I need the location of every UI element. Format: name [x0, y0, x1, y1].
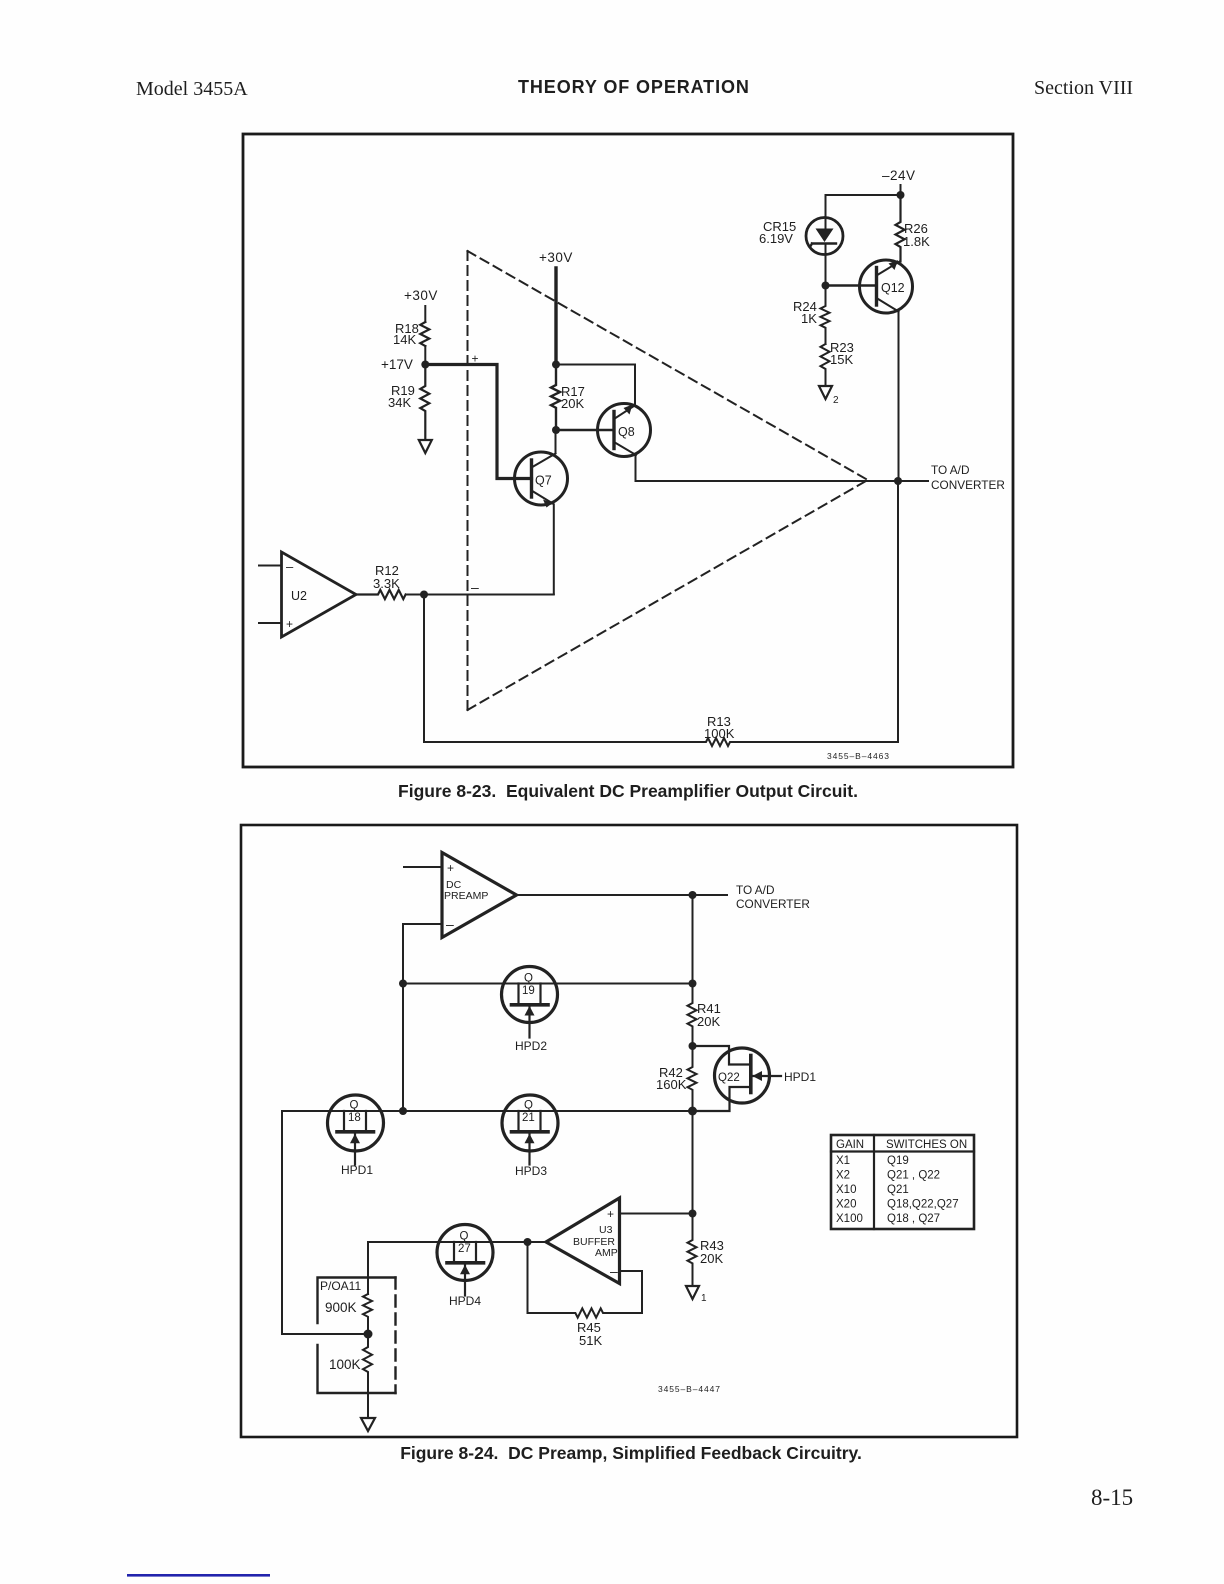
svg-text:Figure 8-24. DC Preamp, Simpl: Figure 8-24. DC Preamp, Simplified Feedb… [400, 1443, 862, 1463]
node -24V [897, 191, 905, 199]
ground below R19 [419, 440, 432, 453]
wire Q18/Q21 row [282, 1110, 693, 1112]
svg-text:Q18 , Q27: Q18 , Q27 [887, 1213, 940, 1225]
figure 8-24 frame [241, 825, 1017, 1437]
svg-text:100K: 100K [329, 1357, 361, 1372]
svg-text:+30V: +30V [404, 288, 438, 303]
svg-text:PREAMP: PREAMP [444, 890, 488, 902]
svg-text:+30V: +30V [539, 250, 573, 265]
resistor 100K [363, 1334, 372, 1417]
svg-text:Q18,Q22,Q27: Q18,Q22,Q27 [887, 1199, 959, 1211]
svg-text:TO A/D: TO A/D [736, 883, 774, 897]
svg-text:Figure 8-23. Equivalent DC Pr: Figure 8-23. Equivalent DC Preamplifier … [398, 781, 858, 801]
wire output stub [693, 894, 728, 896]
svg-text:20K: 20K [697, 1014, 720, 1029]
svg-text:900K: 900K [325, 1300, 357, 1315]
transistor Q12 [860, 260, 913, 313]
svg-text:U2: U2 [291, 589, 307, 603]
gain table [831, 1135, 974, 1229]
wire +30V down to node [554, 268, 557, 365]
resistor R42 160K [688, 1046, 697, 1111]
wire far-left vertical from Q18 row to divider tap [282, 1111, 368, 1334]
zener diode CR15 6.19V [759, 218, 843, 255]
svg-text:Q: Q [350, 1100, 359, 1112]
svg-text:Q12: Q12 [881, 281, 905, 295]
node U3 output / R45 tap [524, 1238, 532, 1246]
svg-text:+: + [607, 1207, 614, 1221]
svg-text:8-15: 8-15 [1091, 1485, 1133, 1510]
svg-text:–: – [286, 559, 294, 574]
transistor Q7 [515, 452, 568, 508]
node right of Q19 wire [689, 980, 697, 988]
svg-text:34K: 34K [388, 395, 411, 410]
P/O A11 assembly box [318, 1278, 396, 1394]
svg-text:3455–B–4447: 3455–B–4447 [658, 1384, 721, 1394]
svg-text:THEORY OF OPERATION: THEORY OF OPERATION [518, 77, 750, 97]
svg-text:HPD4: HPD4 [449, 1294, 481, 1308]
svg-text:X10: X10 [836, 1184, 856, 1196]
resistor R41 20K [688, 984, 697, 1047]
resistor R12 3.3K [356, 590, 406, 599]
ground 2 below R23 [819, 386, 832, 399]
FET switch Q19 [502, 967, 558, 1038]
svg-text:X20: X20 [836, 1199, 856, 1211]
amplifier boundary (dashed triangle) [468, 251, 867, 710]
svg-text:27: 27 [458, 1243, 471, 1255]
op-amp U2 [259, 552, 356, 637]
FET switch Q22 (rotated) [693, 1046, 782, 1111]
wire node to Q12 base [826, 284, 877, 286]
op-amp U3 BUFFER AMP [546, 1198, 620, 1284]
svg-text:HPD3: HPD3 [515, 1164, 547, 1178]
wire Q27 row down to 900K [367, 1242, 369, 1294]
wire Q8 collector down and right to output node [636, 455, 898, 482]
svg-text:19: 19 [522, 985, 535, 997]
wire Q7 collector to node [555, 430, 557, 453]
wire U3 output through Q27 row [368, 1241, 546, 1243]
wire R12 to summing node [406, 594, 424, 596]
wire CR15 to node [825, 244, 827, 286]
node R17 bottom / Q8 base [552, 426, 560, 434]
wire output stub [898, 480, 928, 482]
FET switch Q27 [437, 1225, 493, 1296]
wire Q7 emitter down to summing wire [553, 505, 555, 594]
svg-text:Section VIII: Section VIII [1034, 77, 1133, 99]
svg-text:–24V: –24V [882, 168, 916, 183]
FET switch Q21 [502, 1095, 558, 1165]
svg-text:160K: 160K [656, 1077, 687, 1092]
wire feedback up right side [897, 481, 899, 742]
node output [689, 891, 697, 899]
wire node +17V to Q7 base [425, 365, 531, 479]
wire summing node down to feedback [423, 595, 425, 743]
svg-text:20K: 20K [700, 1251, 723, 1266]
svg-text:+: + [286, 617, 293, 631]
svg-text:Q8: Q8 [618, 425, 635, 439]
wire node to Q8 base [556, 429, 613, 431]
ground below 100K [361, 1418, 375, 1431]
node U3 + input [689, 1210, 697, 1218]
wire left vertical from - input row to Q18 row [402, 984, 404, 1112]
wire DC preamp - input [403, 924, 442, 984]
node CR15/R24/Q12 base [822, 282, 830, 290]
decorative blue mark [127, 1574, 270, 1577]
svg-text:+17V: +17V [381, 357, 413, 372]
svg-text:100K: 100K [704, 726, 735, 741]
wire U3 + input [621, 1213, 693, 1215]
svg-text:1.8K: 1.8K [903, 234, 930, 249]
node Q21 row right [688, 1107, 697, 1116]
svg-text:Q: Q [524, 973, 533, 985]
svg-text:3.3K: 3.3K [373, 576, 400, 591]
resistor R43 20K [688, 1214, 697, 1286]
svg-text:3455–B–4463: 3455–B–4463 [827, 751, 890, 761]
node divider tap [364, 1330, 373, 1339]
wire summing node to Q7 emitter [424, 594, 554, 596]
wire -24V rail to CR15 [826, 195, 901, 218]
node summing junction [420, 591, 428, 599]
node +17V [421, 361, 429, 369]
wire R18 to node +17V [424, 346, 426, 365]
svg-text:Q: Q [460, 1231, 469, 1243]
svg-text:14K: 14K [393, 332, 416, 347]
resistor R26 1.8K [896, 195, 905, 262]
FET switch Q18 [328, 1095, 384, 1165]
figure 8-23 frame [243, 134, 1013, 767]
svg-text:HPD2: HPD2 [515, 1039, 547, 1053]
svg-text:1K: 1K [801, 311, 817, 326]
node output [894, 477, 902, 485]
svg-text:Q21: Q21 [887, 1184, 909, 1196]
svg-text:AMP: AMP [595, 1247, 618, 1259]
svg-text:15K: 15K [830, 352, 853, 367]
svg-text:2: 2 [833, 395, 839, 406]
node R41 bottom / Q22 top [689, 1042, 697, 1050]
svg-text:HPD1: HPD1 [784, 1070, 816, 1084]
svg-text:Model 3455A: Model 3455A [136, 78, 248, 100]
ground 1 below R43 [686, 1286, 699, 1299]
svg-text:21: 21 [522, 1112, 535, 1124]
resistor R23 15K [821, 344, 830, 385]
svg-text:CONVERTER: CONVERTER [736, 897, 810, 911]
wire output node down [692, 895, 694, 984]
svg-text:CONVERTER: CONVERTER [931, 478, 1005, 492]
resistor R18 14K [420, 322, 429, 346]
svg-text:X100: X100 [836, 1213, 863, 1225]
svg-text:Q7: Q7 [535, 474, 552, 488]
wire DC preamp output [517, 894, 693, 896]
svg-text:P/OA11: P/OA11 [320, 1279, 361, 1293]
resistor R19 34K [420, 365, 429, 440]
resistor R13 100K [424, 738, 898, 746]
svg-text:TO A/D: TO A/D [931, 463, 969, 477]
svg-text:Q22: Q22 [718, 1072, 740, 1084]
wire Q12 collector down to output [898, 312, 900, 482]
svg-text:20K: 20K [561, 396, 584, 411]
resistor R17 20K [551, 365, 560, 431]
svg-text:U3: U3 [599, 1224, 613, 1236]
svg-text:Q19: Q19 [887, 1155, 909, 1167]
wire R45 up to output node [527, 1242, 529, 1313]
svg-text:X1: X1 [836, 1155, 850, 1167]
svg-text:6.19V: 6.19V [759, 231, 793, 246]
wire U3 - input feedback loop [621, 1271, 642, 1313]
svg-text:51K: 51K [579, 1333, 602, 1348]
svg-text:Q21 , Q22: Q21 , Q22 [887, 1170, 940, 1182]
transistor Q8 [598, 404, 651, 457]
node left of Q19 wire [399, 980, 407, 988]
svg-text:18: 18 [348, 1112, 361, 1124]
node Q18/Q21 row at left vertical [399, 1107, 407, 1115]
svg-text:HPD1: HPD1 [341, 1163, 373, 1177]
wire Q19 row [403, 983, 693, 985]
svg-text:+: + [447, 861, 454, 875]
resistor R24 1K [821, 286, 830, 345]
svg-text:–: – [446, 916, 454, 932]
svg-text:SWITCHES ON: SWITCHES ON [886, 1139, 967, 1151]
svg-text:1: 1 [701, 1293, 707, 1304]
wire node to Q8 emitter top [556, 365, 635, 404]
node R17 top [552, 361, 560, 369]
resistor R45 51K [528, 1308, 643, 1317]
resistor 900K [363, 1294, 372, 1334]
svg-text:–: – [610, 1263, 618, 1279]
svg-text:Q: Q [524, 1100, 533, 1112]
wire Q21 node down to U3 + node [692, 1111, 694, 1214]
svg-text:GAIN: GAIN [836, 1139, 864, 1151]
svg-text:X2: X2 [836, 1170, 850, 1182]
wire +30V to R18 [424, 306, 426, 322]
op-amp DC PREAMP [404, 853, 517, 938]
svg-text:–: – [471, 579, 479, 595]
